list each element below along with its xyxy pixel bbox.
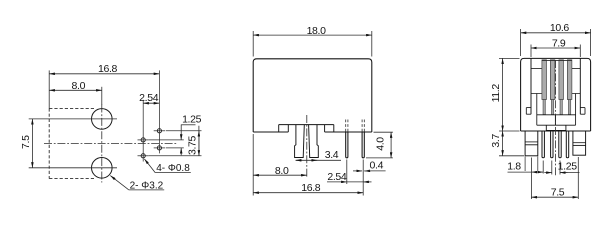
contact bar 3	[559, 60, 564, 100]
snap latch post right prong	[309, 125, 319, 158]
latch notch right	[580, 108, 585, 115]
svg-text:1.25: 1.25	[558, 161, 578, 173]
inner shelf line	[531, 93, 542, 95]
vertical center line through circles (dash-dot)	[101, 105, 103, 183]
inner opening walls	[537, 94, 576, 126]
mounting hole circle top (phi 3.2)	[92, 109, 113, 130]
svg-text:1.25: 1.25	[182, 114, 202, 126]
contact wire 4 lower	[568, 100, 570, 115]
center line (dash-dot) right view	[555, 60, 557, 177]
pin hole B (mid left)	[138, 138, 149, 142]
svg-text:3.4: 3.4	[325, 149, 339, 161]
contact bar 4	[567, 60, 572, 100]
dimension 8.0 (left view)	[49, 87, 102, 105]
right mounting post	[573, 131, 586, 155]
pin 1 (solid below body)	[346, 132, 348, 158]
svg-text:1.8: 1.8	[507, 161, 521, 173]
label 2-phi3.2 with leader	[110, 176, 164, 190]
left mounting post	[525, 131, 538, 156]
svg-text:16.8: 16.8	[98, 63, 118, 75]
dimension 3.4 (latch width)	[296, 159, 341, 161]
svg-text:18.0: 18.0	[307, 25, 327, 37]
svg-text:2.54: 2.54	[139, 92, 159, 104]
dimension 3.7	[499, 131, 524, 156]
dimension 1.8	[508, 158, 544, 200]
label 4-phi0.8 with leader	[144, 159, 190, 173]
contact wire 3 lower	[560, 100, 562, 115]
contact wire 2 lower	[551, 100, 553, 115]
dimension 8.0 (latch position)	[253, 134, 307, 196]
pin hole A (top right)	[154, 129, 165, 133]
hidden body outline (dashed)	[49, 108, 95, 178]
contact wire 1 lower	[543, 100, 545, 115]
body bottom edge	[521, 130, 591, 132]
dimension 1.25 (right view)	[544, 161, 579, 175]
svg-text:2- Φ3.2: 2- Φ3.2	[130, 181, 164, 192]
svg-text:0.4: 0.4	[370, 160, 384, 172]
bottom recess	[279, 125, 334, 132]
svg-text:8.0: 8.0	[72, 80, 86, 92]
center line horizontal through top circle	[29, 118, 117, 120]
dimension 1.25 arrows (left view)	[180, 125, 182, 156]
dimension 7.5 (left view)	[31, 119, 33, 168]
dimension 7.5 (right view)	[531, 157, 578, 199]
svg-text:4- Φ0.8: 4- Φ0.8	[156, 163, 190, 174]
mounting hole circle bottom (phi 3.2)	[92, 158, 113, 179]
body outline	[521, 58, 591, 131]
contact bar 2	[550, 60, 555, 100]
dimension 4.0 (pin length)	[366, 132, 393, 158]
center line horizontal through bottom circle	[29, 167, 117, 169]
svg-text:3.75: 3.75	[187, 135, 199, 155]
dimension 16.8 (bottom)	[253, 160, 363, 196]
pin 2 (solid below body)	[362, 132, 364, 158]
pin hole D (bottom left)	[138, 154, 149, 158]
dimension 3.75 (left view)	[198, 126, 200, 156]
ledge box below contacts	[537, 115, 576, 131]
svg-text:4.0: 4.0	[375, 137, 387, 151]
contact top cap line	[542, 60, 572, 62]
svg-text:7.5: 7.5	[20, 135, 32, 149]
row extension lines (left view pins)	[149, 131, 202, 156]
svg-text:3.7: 3.7	[490, 134, 502, 148]
dimension 7.9	[531, 45, 580, 58]
dimension 11.2	[499, 58, 520, 131]
svg-text:11.2: 11.2	[490, 84, 502, 103]
dimension 18.0	[253, 31, 372, 57]
svg-text:7.5: 7.5	[551, 186, 565, 198]
dimension 10.6	[521, 29, 591, 56]
svg-text:2.54: 2.54	[327, 171, 347, 183]
side view pins	[542, 131, 569, 158]
post edge extension stubs	[525, 157, 538, 172]
main horizontal axis (dash-dot)	[44, 142, 178, 144]
mouth shelf right	[572, 67, 580, 69]
pin column center line right	[158, 70, 160, 153]
pin 1 hidden part (dashed)	[346, 120, 348, 133]
svg-text:8.0: 8.0	[275, 165, 289, 177]
dimension 2.54 (pin pitch)	[327, 160, 372, 185]
pin 2 hidden part (dashed)	[362, 120, 364, 133]
contact bar 1	[542, 60, 547, 100]
pin hole C (mid right)	[154, 146, 165, 150]
pin column center line left	[142, 100, 144, 162]
dimension 16.8 (left view)	[49, 70, 159, 108]
body outline	[253, 59, 372, 132]
svg-text:7.9: 7.9	[552, 37, 566, 49]
body bottom edge segments	[253, 131, 372, 133]
snap latch post left prong	[295, 125, 305, 158]
svg-text:10.6: 10.6	[550, 22, 570, 34]
socket opening outer walls	[531, 58, 580, 114]
dimension 0.4 (pin thickness)	[353, 170, 386, 172]
mouth shelf left	[531, 67, 542, 69]
latch notch left	[526, 108, 531, 115]
dimension 2.54 (left view)	[143, 102, 159, 104]
svg-text:16.8: 16.8	[301, 182, 321, 194]
latch center line (dash-dot)	[306, 115, 308, 177]
